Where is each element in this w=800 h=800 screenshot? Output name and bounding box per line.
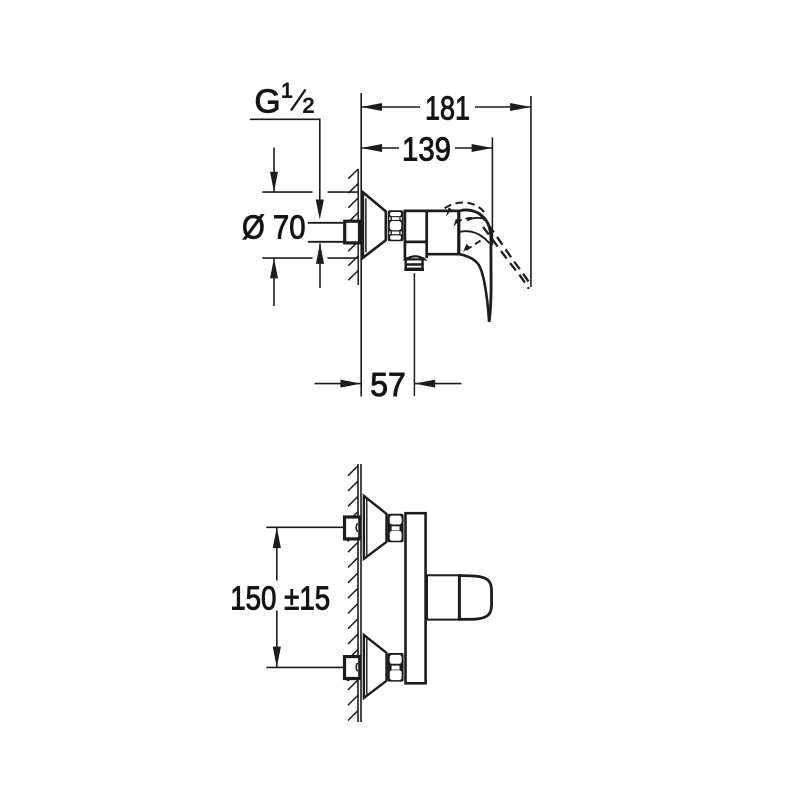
dashed rotation arc upper	[445, 203, 485, 213]
handle inner tail edge	[460, 254, 489, 321]
svg-text:Ø 70: Ø 70	[242, 209, 306, 246]
rotation arc arrowhead upper	[446, 207, 452, 216]
diameter arrow up (pipe bottom edge)	[316, 243, 324, 264]
outlet sides	[405, 259, 407, 271]
bottom supply nut notch	[347, 678, 350, 681]
cartridge (front)	[427, 575, 459, 619]
svg-text:150 ±15: 150 ±15	[230, 581, 330, 618]
leader arrow down (pipe top edge)	[316, 200, 324, 220]
svg-text:57: 57	[370, 367, 406, 404]
top escutcheon cone (front)	[364, 496, 387, 559]
escutcheon cone (side view)	[363, 192, 386, 257]
139 right extension line	[491, 138, 493, 246]
dashed rotation arc mid	[456, 218, 474, 223]
181 right extension line	[530, 96, 532, 287]
dimension 139 line	[361, 147, 399, 149]
top supply nut chamfer mark	[356, 523, 358, 532]
dashed handle (raised position) line 2	[483, 227, 529, 289]
bottom union nut (front)	[388, 653, 404, 682]
dimension 181 line	[361, 106, 420, 108]
handle dome (front)	[459, 576, 491, 620]
outlet mid line	[405, 263, 424, 266]
wall hatching (bottom view)	[348, 466, 358, 721]
svg-text:2: 2	[303, 94, 315, 118]
valve body right edge	[457, 210, 460, 256]
dia70 dimension arrow bottom	[273, 258, 275, 306]
svg-text:181: 181	[425, 90, 470, 127]
valve body divider	[425, 210, 428, 259]
top supply square nut	[345, 517, 360, 539]
bottom supply nut chamfer mark	[356, 663, 358, 672]
valve body left edge	[404, 210, 407, 259]
wall hatching (top view)	[348, 169, 358, 280]
outlet bottom corners	[404, 257, 425, 259]
dimension 150 bottom extension line	[266, 666, 343, 668]
supply hex nut (side view)	[345, 221, 360, 243]
dimension 150 line upper	[276, 527, 278, 580]
bottom supply square nut	[345, 657, 360, 679]
dimension 150 top extension line	[266, 526, 343, 528]
top supply nut notch	[347, 539, 350, 542]
union nut (side view)	[388, 210, 404, 241]
valve body bottom edge	[427, 253, 460, 256]
supply pipe	[308, 222, 344, 224]
wall surface line	[357, 169, 359, 285]
dashed lift arc	[464, 241, 480, 252]
top union nut (front)	[388, 514, 404, 543]
wall line outer	[357, 464, 359, 722]
valve body fill	[404, 210, 459, 259]
wall line inner	[360, 464, 362, 722]
dia70 dimension arrow top	[273, 148, 275, 193]
dia70 top extension line	[262, 191, 312, 193]
G 1/2 label	[255, 79, 315, 121]
svg-text:G: G	[255, 84, 281, 121]
handle inner contour arc lower	[460, 231, 489, 243]
dimension 150 line lower	[276, 611, 278, 668]
handle inner contour arc upper	[467, 218, 486, 220]
dimension 57	[315, 383, 362, 385]
wall line / extension line	[360, 93, 362, 397]
valve body top edge	[404, 210, 460, 213]
outlet center line / 57 extension	[413, 273, 415, 396]
lift arc arrowhead	[463, 244, 470, 252]
svg-text:139: 139	[402, 131, 451, 168]
outlet shoulder arc	[406, 256, 424, 259]
dia70 bottom extension line	[262, 257, 312, 259]
G1/2 leader line	[250, 119, 320, 200]
valve body cartridge base line	[405, 241, 427, 244]
outlet bottom flange	[404, 268, 424, 271]
handle outer curve	[460, 210, 491, 322]
bottom escutcheon cone (front)	[364, 635, 387, 698]
svg-text:1: 1	[281, 79, 293, 103]
rotation arc arrowhead mid	[454, 219, 459, 227]
valve body (front)	[406, 513, 426, 683]
dashed handle (raised position) line 1	[479, 213, 530, 284]
